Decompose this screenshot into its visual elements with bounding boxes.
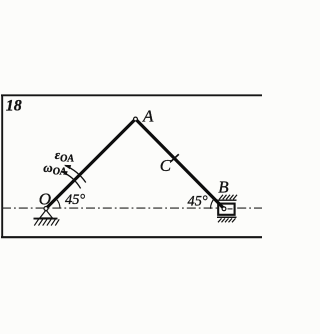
svg-text:A: A xyxy=(142,107,154,126)
frame bottom border xyxy=(1,236,262,238)
omega arrowhead xyxy=(60,171,67,175)
ground line at O xyxy=(34,218,58,220)
tick mark at C xyxy=(171,154,179,161)
link AB xyxy=(136,119,225,209)
joint circle A xyxy=(134,117,138,121)
slider block at B xyxy=(218,204,234,215)
svg-text:C: C xyxy=(160,156,172,175)
svg-text:18: 18 xyxy=(6,98,22,115)
pin circle B xyxy=(222,207,226,211)
angle arc at B xyxy=(210,198,215,209)
svg-text:B: B xyxy=(218,178,229,197)
joint circle O xyxy=(44,207,48,211)
upper guide rail at B xyxy=(217,199,237,201)
epsilon arrowhead xyxy=(64,165,71,169)
svg-text:45°: 45° xyxy=(65,192,85,208)
link OA xyxy=(46,119,136,209)
dash segment inside slider xyxy=(228,208,233,210)
omega arc arrow xyxy=(62,172,81,189)
angle arc at O xyxy=(56,199,60,209)
hatching at O xyxy=(34,219,59,225)
svg-text:O: O xyxy=(39,190,51,209)
frame top border xyxy=(1,94,262,96)
hatching above rail at B xyxy=(219,195,237,200)
svg-text:45°: 45° xyxy=(188,194,208,210)
pivot triangle at O xyxy=(40,210,53,218)
dash-dot centerline xyxy=(2,207,262,209)
hatching below rail at B xyxy=(218,218,236,222)
frame left border xyxy=(1,95,3,238)
epsilon arc arrow xyxy=(65,166,86,183)
lower guide rail at B xyxy=(217,216,237,218)
